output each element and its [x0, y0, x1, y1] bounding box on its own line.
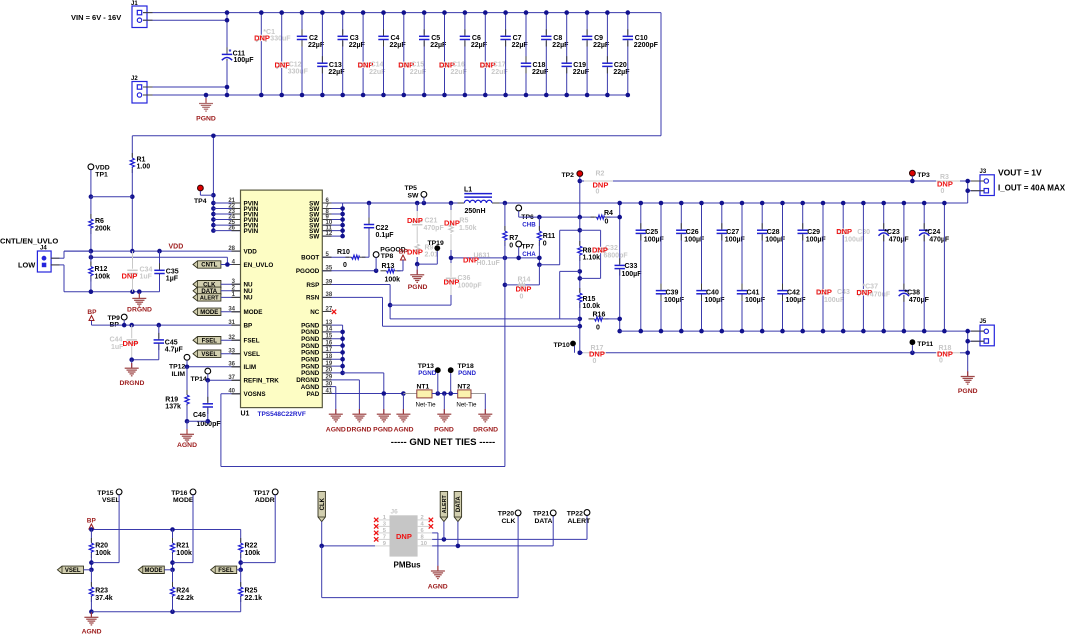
- svg-text:C16: C16: [452, 62, 465, 69]
- svg-text:DNP: DNP: [254, 34, 270, 43]
- wire J4 pin2: [51, 265, 91, 292]
- capacitor C1: [254, 10, 291, 97]
- testpoint TP17: [253, 489, 278, 563]
- svg-text:DNP: DNP: [516, 285, 532, 294]
- svg-text:6800pF: 6800pF: [604, 252, 629, 259]
- testpoint TP9: [108, 314, 128, 328]
- capacitor C9: [582, 10, 610, 97]
- resistor R19: [165, 367, 189, 424]
- capacitor C45: [154, 325, 184, 360]
- net tag CLK ic: [193, 281, 241, 289]
- net-tie NT2: [456, 384, 485, 409]
- svg-text:DNP: DNP: [444, 218, 460, 227]
- capacitor C44 DNP: [110, 325, 139, 360]
- text VOUT: [998, 168, 1066, 193]
- svg-text:1000pF: 1000pF: [458, 282, 483, 289]
- svg-text:C44: C44: [110, 337, 123, 344]
- svg-text:1.00: 1.00: [137, 164, 151, 171]
- svg-text:TP18: TP18: [458, 363, 474, 370]
- resistor R4: [591, 210, 620, 225]
- svg-text:DNP: DNP: [407, 248, 423, 257]
- wire pin 21 PVIN stub: [213, 202, 240, 204]
- resistor R8: [578, 217, 601, 292]
- wire SW stub vertical: [322, 203, 345, 238]
- ground AGND u1: [326, 409, 346, 433]
- svg-text:TP17: TP17: [253, 490, 269, 497]
- svg-text:42.2k: 42.2k: [176, 595, 194, 602]
- pin 10 J6: [418, 541, 433, 547]
- svg-text:CNTL: CNTL: [201, 263, 217, 269]
- ground AGND r19: [177, 421, 197, 449]
- inductor L1: [458, 186, 500, 215]
- svg-text:J6: J6: [391, 509, 399, 516]
- svg-text:FSEL: FSEL: [218, 568, 234, 574]
- capacitor C20: [602, 10, 630, 97]
- resistor R6: [89, 197, 111, 251]
- wire pin6 to AGND: [432, 533, 438, 571]
- svg-text:DNP: DNP: [937, 179, 953, 188]
- wire net-tie mid rail: [432, 391, 458, 396]
- svg-text:R24: R24: [176, 588, 189, 595]
- resistor R18 DNP: [936, 345, 960, 365]
- svg-text:J3: J3: [980, 169, 987, 175]
- net BP arrow bottom: [87, 517, 97, 529]
- net tag FSEL bottom: [211, 566, 241, 574]
- resistor R11: [537, 217, 555, 267]
- wire VDD-EN segment: [90, 251, 92, 257]
- resistor R15: [578, 288, 601, 355]
- svg-text:470uF: 470uF: [870, 292, 891, 299]
- svg-text:ALERT: ALERT: [568, 518, 592, 525]
- svg-text:DRGND: DRGND: [127, 307, 152, 314]
- svg-text:470µF: 470µF: [889, 236, 910, 243]
- pin stubs J4: [51, 258, 60, 265]
- svg-text:4.7µF: 4.7µF: [165, 347, 184, 354]
- svg-text:C33: C33: [625, 263, 638, 270]
- capacitor C27: [717, 201, 746, 334]
- resistor R9 DNP: [407, 244, 438, 264]
- pin NC x-mark: [322, 310, 336, 314]
- svg-text:C21: C21: [425, 218, 438, 225]
- connector J2: [131, 76, 147, 103]
- wire ALERT pin8: [432, 515, 587, 541]
- svg-text:100k: 100k: [95, 550, 111, 557]
- resistor R12: [89, 257, 110, 291]
- svg-text:R7: R7: [509, 235, 518, 242]
- svg-text:2: 2: [421, 515, 424, 521]
- svg-text:AGND: AGND: [394, 426, 414, 433]
- wire PVIN vertical: [211, 134, 216, 233]
- svg-text:R25: R25: [245, 588, 258, 595]
- svg-text:NC: NC: [310, 309, 320, 316]
- svg-text:BOOT: BOOT: [301, 255, 319, 262]
- testpoint TP18: [448, 363, 477, 394]
- svg-text:2200pF: 2200pF: [634, 42, 659, 49]
- svg-text:SW: SW: [309, 233, 319, 240]
- wire pin 24 PVIN stub: [213, 219, 240, 221]
- capacitor C39: [656, 201, 685, 334]
- wire RSN route: [322, 297, 580, 326]
- svg-text:ALERT: ALERT: [200, 296, 219, 302]
- svg-text:PGND: PGND: [196, 116, 216, 123]
- svg-text:BP: BP: [87, 309, 97, 316]
- net tag VSEL bottom: [57, 566, 91, 574]
- pin stubs J1 J2: [143, 13, 153, 95]
- x-marks J6 right: [429, 518, 433, 529]
- capacitor C37: [856, 201, 890, 334]
- wire RSP route: [322, 271, 580, 319]
- svg-text:PGND: PGND: [418, 370, 436, 377]
- svg-text:DRGND: DRGND: [119, 380, 144, 387]
- svg-text:C35: C35: [166, 268, 179, 275]
- wire R20 to TP15: [91, 562, 119, 564]
- wire TP1 node to R1: [91, 196, 132, 198]
- svg-text:C39: C39: [666, 289, 679, 296]
- svg-text:VSEL: VSEL: [201, 352, 217, 358]
- capacitor C36 DNP: [444, 258, 483, 305]
- svg-text:I_OUT = 40A MAX: I_OUT = 40A MAX: [998, 183, 1066, 192]
- ground DRGND u1: [347, 409, 372, 433]
- pin 6 J6: [418, 528, 433, 534]
- net BP arrow r13: [399, 249, 409, 271]
- svg-text:TP4: TP4: [194, 198, 207, 205]
- svg-text:DNP: DNP: [123, 339, 139, 348]
- svg-text:100k: 100k: [245, 550, 261, 557]
- svg-text:CHA: CHA: [522, 251, 536, 258]
- svg-text:10.0k: 10.0k: [583, 303, 601, 310]
- wire DATA pin10: [432, 516, 553, 548]
- wire R22 to TP17: [241, 562, 276, 564]
- svg-text:C26: C26: [686, 229, 699, 236]
- svg-text:TP5: TP5: [405, 185, 418, 192]
- ground AGND pad: [394, 409, 414, 433]
- testpoint TP22: [567, 510, 591, 525]
- svg-text:C42: C42: [787, 289, 800, 296]
- wire TP11 R17 line: [580, 351, 968, 356]
- svg-text:BP: BP: [244, 322, 253, 329]
- pin stubs U1: [232, 203, 332, 394]
- capacitor C7: [500, 10, 528, 97]
- capacitor C46: [193, 380, 221, 428]
- capacitor C15: [398, 10, 427, 97]
- svg-text:VSEL: VSEL: [244, 351, 261, 358]
- svg-text:470pF: 470pF: [424, 225, 445, 232]
- wire CLK loop to TP20: [322, 516, 518, 598]
- net BP arrow mid: [87, 309, 97, 325]
- svg-text:VOSNS: VOSNS: [244, 391, 266, 398]
- svg-text:U1: U1: [241, 410, 250, 417]
- ground DRGND vdd: [127, 292, 152, 314]
- op-amp U1 TPS548C22RVF: [228, 190, 333, 418]
- capacitor C28: [757, 201, 786, 334]
- capacitor C21 DNP: [407, 203, 444, 243]
- testpoint TP16: [171, 489, 196, 563]
- svg-text:TP22: TP22: [567, 511, 583, 518]
- capacitor C11: [222, 10, 254, 97]
- ground PGND input: [196, 93, 216, 123]
- resistor R1: [130, 136, 150, 197]
- svg-text:PGND: PGND: [301, 370, 320, 377]
- svg-text:NT2: NT2: [457, 384, 470, 391]
- svg-text:*C38: *C38: [904, 289, 920, 296]
- svg-text:TP20: TP20: [498, 511, 514, 518]
- svg-text:100k: 100k: [95, 274, 111, 281]
- capacitor C17: [480, 10, 509, 97]
- ground DRGND bp: [119, 360, 144, 387]
- resistor R24: [170, 570, 194, 612]
- svg-text:ILIM: ILIM: [244, 364, 257, 371]
- wire pin 25 PVIN stub: [213, 224, 240, 226]
- svg-text:0.1µF: 0.1µF: [376, 232, 395, 239]
- svg-text:PGND: PGND: [458, 370, 476, 377]
- svg-text:CNTL/EN_UVLO: CNTL/EN_UVLO: [0, 237, 58, 246]
- svg-text:TP21: TP21: [533, 511, 549, 518]
- text VIN label: [71, 13, 121, 22]
- svg-text:----- GND NET TIES -----: ----- GND NET TIES -----: [391, 437, 495, 448]
- svg-text:470µF: 470µF: [929, 236, 950, 243]
- svg-text:TP16: TP16: [171, 490, 187, 497]
- svg-text:C36: C36: [458, 275, 471, 282]
- capacitor C40: [696, 201, 725, 334]
- wire AGND pin: [322, 387, 336, 415]
- svg-text:PMBus: PMBus: [394, 561, 422, 570]
- resistor R25: [239, 570, 263, 612]
- svg-text:C14: C14: [371, 62, 384, 69]
- testpoint TP19: [415, 240, 444, 266]
- resistor R10: [322, 249, 365, 269]
- svg-text:C27: C27: [726, 229, 739, 236]
- svg-text:PGND: PGND: [958, 388, 978, 395]
- svg-text:FSEL: FSEL: [202, 338, 218, 344]
- capacitor C30: [836, 201, 870, 334]
- net tag FSEL ic: [193, 337, 241, 345]
- svg-text:R20: R20: [95, 543, 108, 550]
- svg-text:0: 0: [596, 188, 600, 195]
- svg-text:L1: L1: [464, 186, 472, 193]
- pin 9 J6: [375, 541, 390, 547]
- net tag MODE bottom: [138, 566, 172, 574]
- wire VIN top bus: [143, 12, 661, 14]
- pin 7 J6: [375, 535, 390, 541]
- x-marks J6 left: [374, 518, 378, 542]
- svg-text:CLK: CLK: [320, 497, 326, 510]
- svg-text:200k: 200k: [95, 226, 111, 233]
- net tag CLK pmbus: [318, 491, 326, 546]
- svg-text:0: 0: [343, 262, 347, 269]
- svg-text:EN_UVLO: EN_UVLO: [244, 262, 274, 269]
- svg-text:VDD: VDD: [169, 244, 184, 251]
- svg-text:R15: R15: [583, 296, 596, 303]
- svg-text:R5: R5: [459, 218, 468, 225]
- capacitor C26: [676, 201, 705, 334]
- svg-text:TP3: TP3: [917, 172, 930, 179]
- wire J2 pin1: [143, 86, 227, 88]
- svg-text:*: *: [229, 49, 232, 56]
- resistor R16: [589, 311, 620, 331]
- svg-text:DATA: DATA: [456, 496, 462, 512]
- net tag MODE ic: [193, 308, 241, 316]
- svg-text:0: 0: [593, 358, 597, 365]
- capacitor C10: [623, 10, 659, 97]
- pin 2 J6: [418, 515, 433, 521]
- svg-text:PGND: PGND: [434, 426, 454, 433]
- capacitor C2: [297, 10, 325, 97]
- net-tie NT1: [403, 384, 436, 409]
- testpoint TP8: [373, 246, 405, 270]
- net tag CNTL: [193, 261, 241, 269]
- svg-text:*C23: *C23: [884, 229, 900, 236]
- svg-text:100uF: 100uF: [844, 236, 865, 243]
- svg-text:MODE: MODE: [145, 568, 163, 574]
- resistor R23: [89, 570, 113, 614]
- wire PAD line: [322, 391, 405, 414]
- capacitor C42: [777, 201, 806, 334]
- svg-text:250nH: 250nH: [465, 208, 486, 215]
- svg-text:7: 7: [383, 535, 386, 541]
- wire R11 node riser: [539, 230, 579, 264]
- wire VOUT bottom bus: [620, 330, 968, 332]
- svg-text:0: 0: [509, 242, 513, 249]
- testpoint TP5: [405, 185, 427, 203]
- resistor R17 DNP: [583, 345, 606, 365]
- wire R1 to VDD rail: [130, 194, 135, 253]
- svg-text:0: 0: [543, 241, 547, 248]
- svg-text:R16: R16: [593, 311, 606, 318]
- ground DRGND nettie: [473, 394, 498, 434]
- capacitor C13: [317, 10, 345, 97]
- svg-text:DRGND: DRGND: [347, 426, 372, 433]
- capacitor C24: [919, 201, 950, 334]
- svg-text:100k: 100k: [176, 550, 192, 557]
- svg-text:TP2: TP2: [562, 172, 575, 179]
- pin stubs J3 J5: [971, 181, 984, 341]
- testpoint TP10: [554, 341, 583, 356]
- wire bottom rail: [91, 609, 240, 614]
- wire VIN right drop: [660, 13, 662, 136]
- svg-text:MODE: MODE: [200, 310, 218, 316]
- pin 8 J6: [418, 535, 433, 541]
- svg-text:C22: C22: [376, 225, 389, 232]
- svg-text:Net-Tie: Net-Tie: [456, 401, 477, 408]
- pin 4 J6: [418, 522, 433, 528]
- svg-text:VIN = 6V - 16V: VIN = 6V - 16V: [71, 13, 121, 22]
- svg-text:DRGND: DRGND: [473, 426, 498, 433]
- svg-text:RSN: RSN: [306, 295, 320, 302]
- svg-text:0: 0: [596, 324, 600, 331]
- resistor R5 DNP: [444, 203, 477, 258]
- svg-text:DNP: DNP: [589, 350, 605, 359]
- ground PGND tp19: [408, 264, 428, 291]
- node BP rail: [92, 323, 241, 328]
- connector J6 PMBus: [390, 509, 422, 570]
- snubber U631 DNP: [449, 253, 540, 267]
- svg-text:1.50k: 1.50k: [459, 225, 477, 232]
- svg-text:100µF: 100µF: [234, 57, 255, 64]
- svg-text:TP13: TP13: [418, 363, 434, 370]
- capacitor C38: [899, 201, 930, 334]
- ground PGND u1: [373, 409, 393, 433]
- resistor R13: [381, 263, 404, 284]
- wire pin 22 PVIN stub: [213, 208, 240, 210]
- svg-text:DNP: DNP: [122, 272, 138, 281]
- svg-text:C29: C29: [807, 229, 820, 236]
- resistor R2 DNP: [580, 170, 968, 195]
- capacitor C4: [378, 10, 406, 97]
- svg-text:22.1k: 22.1k: [245, 595, 263, 602]
- svg-text:C41: C41: [747, 289, 760, 296]
- capacitor C43: [816, 201, 850, 334]
- text GND NET TIES: [391, 437, 495, 448]
- svg-text:TP15: TP15: [97, 490, 113, 497]
- capacitor C8: [541, 10, 569, 97]
- svg-text:C17: C17: [493, 62, 506, 69]
- wire CLK to pin9: [319, 544, 375, 549]
- svg-text:VSEL: VSEL: [65, 568, 81, 574]
- svg-text:0: 0: [939, 358, 943, 365]
- svg-text:PAD: PAD: [306, 391, 319, 398]
- svg-text:100uF: 100uF: [824, 297, 845, 304]
- svg-text:AGND: AGND: [82, 629, 102, 636]
- svg-text:MODE: MODE: [173, 497, 194, 504]
- testpoint TP4: [194, 185, 213, 205]
- svg-text:R4: R4: [604, 210, 613, 217]
- capacitor C33: [615, 258, 643, 333]
- svg-text:470µF: 470µF: [909, 297, 930, 304]
- resistor R3 DNP: [936, 174, 960, 195]
- wire REFIN_TRK: [206, 378, 241, 383]
- svg-text:TPS548C22RVF: TPS548C22RVF: [258, 411, 306, 418]
- svg-text:C12: C12: [289, 61, 302, 68]
- svg-text:AGND: AGND: [428, 583, 448, 590]
- wire J1 pin2 to C11: [143, 19, 227, 21]
- svg-text:0: 0: [605, 219, 609, 226]
- capacitor C25: [636, 201, 665, 334]
- svg-text:DNP: DNP: [407, 216, 423, 225]
- capacitor C34 DNP: [122, 251, 153, 292]
- svg-text:VDD: VDD: [244, 248, 258, 255]
- wire VOUT top bus: [617, 201, 967, 264]
- net tag VSEL ic: [193, 350, 241, 358]
- svg-text:37.4k: 37.4k: [95, 595, 113, 602]
- svg-text:R8: R8: [583, 247, 592, 254]
- svg-text:TP8: TP8: [381, 253, 394, 260]
- svg-text:C15: C15: [411, 62, 424, 69]
- text LOW: [18, 261, 35, 270]
- wire output column: [942, 201, 947, 334]
- svg-text:CLK: CLK: [502, 518, 516, 525]
- svg-text:C25: C25: [645, 229, 658, 236]
- wire TP1 down: [89, 170, 94, 199]
- svg-text:*C24: *C24: [925, 229, 941, 236]
- capacitor C16: [439, 10, 468, 97]
- svg-text:R6: R6: [95, 218, 104, 225]
- ground AGND bottom: [82, 612, 102, 636]
- wire ILIM: [185, 365, 241, 370]
- svg-text:PGOOD: PGOOD: [296, 268, 320, 275]
- wire EN line: [89, 255, 228, 265]
- net tag ALERT pmbus: [440, 491, 448, 521]
- testpoint TP2: [562, 171, 583, 217]
- testpoint TP3: [910, 170, 930, 183]
- svg-text:RSP: RSP: [306, 282, 319, 289]
- capacitor C5: [419, 10, 447, 97]
- testpoint TP20: [498, 510, 521, 525]
- capacitor C19: [562, 10, 590, 97]
- svg-text:PGND: PGND: [408, 284, 428, 291]
- svg-text:TP14: TP14: [191, 376, 207, 383]
- wire R21 to TP16: [173, 562, 194, 564]
- svg-text:DNP: DNP: [836, 227, 852, 236]
